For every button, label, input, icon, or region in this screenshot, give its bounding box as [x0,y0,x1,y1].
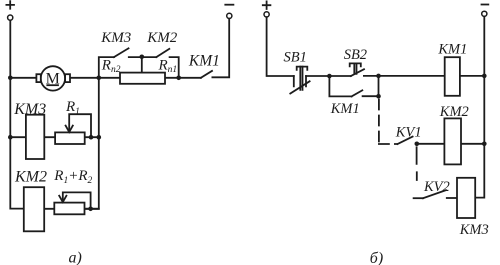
node R1-left junction [8,135,13,140]
node KM2 coil right junction [482,142,487,147]
contactor box KM2 (a) [24,187,44,231]
wire left bus (b) [267,17,294,76]
contact KV2 [414,190,457,198]
node motor-right junction [97,76,102,81]
wire motor rung (a) [10,77,178,79]
wire SB1 to SB2 [306,75,351,77]
svg-text:KM2: KM2 [14,169,47,186]
wire R1 rung (a) [10,136,99,138]
svg-text:Rп2: Rп2 [101,58,121,75]
node R1-right junction [97,135,102,140]
svg-text:а): а) [69,250,82,265]
terminal + (circuit b) [263,1,271,17]
wire bypass bracket left (a) [99,57,114,78]
R1+R2 tap arrow [59,192,90,209]
wire KV1 to coil KM2 [417,143,485,145]
wire right bus (a) [85,78,99,209]
push button SB2 (NO) [350,63,379,76]
contact KM2 blade (a top) [156,49,169,57]
node KM1-left junction [176,76,181,81]
coil KM2 box [444,118,461,164]
svg-text:KM2: KM2 [439,104,469,120]
node Rp tap junction [140,55,145,60]
wire right bus (b) [475,17,484,198]
terminal + (circuit a) [6,1,14,20]
node R1 tap junction [89,135,94,140]
svg-text:SB1: SB1 [284,49,307,65]
node SB2-right junction [376,74,381,79]
contact KV1 [398,137,413,144]
svg-text:R1+R2: R1+R2 [53,168,92,186]
contactor box KM3 (a) [26,115,44,159]
terminal - (circuit b) [482,5,489,17]
node R1+R2 tap junction [88,207,93,212]
svg-text:KM3: KM3 [459,222,489,238]
contact KM1 aux branch [329,76,378,97]
svg-text:R1: R1 [65,99,80,117]
coil KM3 box [457,178,475,218]
svg-text:KM3: KM3 [13,101,46,118]
wire bypass middle (a) [129,56,157,58]
wire center tap to resistor Rp [141,57,143,73]
wire dashed link to KV1 [378,100,380,143]
svg-text:Rп1: Rп1 [158,58,178,75]
node SB1-SB2 junction [327,74,332,79]
wire left bus (a) [10,20,23,208]
wire dashed link to KV2 [416,147,418,180]
wire main rung to coil KM1 [379,75,485,77]
svg-text:б): б) [370,250,383,265]
svg-text:KM1: KM1 [188,53,220,70]
node KM1 coil right junction [482,74,487,79]
contact KM3 blade (a top) [114,48,129,57]
motor M armature [36,66,70,90]
node KV1-KM2 junction [415,142,420,147]
svg-text:KM2: KM2 [146,30,178,46]
resistor R1+R2 box [54,203,84,215]
node aux-right junction [376,94,381,99]
terminal - (circuit a) [225,5,233,19]
wire R1+R2 rung (a) [24,208,99,210]
svg-text:KM1: KM1 [437,42,467,58]
svg-text:KV1: KV1 [395,124,422,140]
svg-text:KM3: KM3 [100,30,131,46]
R1 tap arrow [66,114,91,137]
node motor-left junction [8,76,13,81]
svg-text:SB2: SB2 [344,47,367,63]
push button SB1 (NC) [290,67,309,94]
resistor R1 box [55,132,85,144]
contact KM1 (a) [179,19,230,78]
coil KM1 box [445,57,460,96]
svg-text:KM1: KM1 [330,101,360,117]
svg-text:KV2: KV2 [423,179,450,195]
resistor Rp box [120,73,165,84]
wire bypass bracket right (a) [170,57,179,78]
